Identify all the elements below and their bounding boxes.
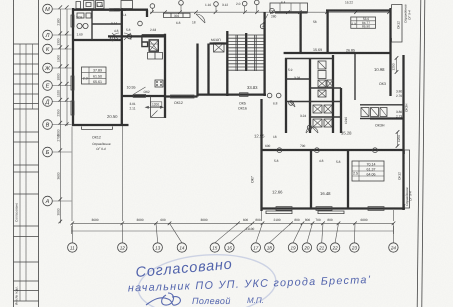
kitchen bottom wall xyxy=(122,95,166,97)
axis circle 14 xyxy=(170,223,187,252)
axis circle К xyxy=(43,44,72,54)
room2 bottom wall xyxy=(165,44,198,97)
node circles bath xyxy=(267,93,312,130)
dim 1250 top right xyxy=(396,58,398,72)
top right outer walls xyxy=(275,8,391,96)
dim 1200 box xyxy=(151,102,162,107)
entrance porch pocket xyxy=(151,97,165,118)
toilet fixture xyxy=(77,13,91,29)
corridor south wall xyxy=(108,35,166,37)
axis circle 19 xyxy=(288,223,302,252)
axis circle 12 xyxy=(118,223,127,252)
stair wall vertical xyxy=(164,34,166,118)
window on top wall xyxy=(110,9,120,11)
top protrusion boxes xyxy=(76,1,104,9)
bathroom partition xyxy=(92,10,122,40)
apartment info box 2.3 right xyxy=(351,17,376,29)
axis circle 21 xyxy=(317,223,326,252)
kitchen door leaf xyxy=(133,87,145,95)
stair rails xyxy=(236,35,256,71)
door arcs center xyxy=(290,102,318,133)
stair block bottom wall xyxy=(197,93,267,95)
frame table cells xyxy=(14,44,39,301)
vertical dimension chain xyxy=(60,9,62,223)
axis circle М xyxy=(43,4,72,14)
paper grain xyxy=(0,0,1,1)
sheet frame left border xyxy=(14,0,39,307)
balcony top right xyxy=(392,5,403,43)
axis circle Б xyxy=(43,147,72,157)
staircase steps flight1 xyxy=(229,35,246,70)
inner dimension chain xyxy=(66,9,68,126)
bath fixtures xyxy=(318,80,326,87)
bottom right block walls xyxy=(262,99,406,211)
axis circle Ж xyxy=(43,63,72,73)
elevator small left of stairs xyxy=(214,43,225,52)
apartment info box 2.5 xyxy=(352,161,384,181)
node circles on wall xyxy=(277,148,377,153)
top dimension line xyxy=(150,11,390,13)
axis circle 18 xyxy=(265,223,291,252)
bottom second dimension line xyxy=(72,226,394,234)
staircase steps flight2 xyxy=(248,35,264,70)
staircase walls xyxy=(227,12,264,96)
right rooms walls xyxy=(355,54,404,119)
wire building corner drop lines xyxy=(72,126,394,221)
corridor top wall xyxy=(114,10,148,17)
stove symbol xyxy=(155,80,163,87)
balcony bottom right xyxy=(405,150,410,208)
axis circle В xyxy=(43,120,72,130)
axis circle Е xyxy=(43,81,72,91)
elevator shaft hatched xyxy=(149,40,158,51)
axis node circle 4 xyxy=(260,14,268,29)
axis circle 13 xyxy=(153,223,162,252)
small node circles top xyxy=(150,4,155,9)
room wall left of stairs xyxy=(209,44,228,95)
axis circle 11 xyxy=(68,223,77,252)
bath cluster walls xyxy=(286,55,341,133)
axis circle 16 xyxy=(225,223,253,252)
left block outer walls xyxy=(72,8,129,126)
signature xyxy=(146,293,180,305)
window boxes bottom xyxy=(266,207,384,214)
left wall windows xyxy=(71,15,74,115)
axis circle 22 xyxy=(330,223,339,252)
bottom main dimension line xyxy=(72,222,394,224)
axis circle Д xyxy=(43,97,72,107)
duct shaft box corridor xyxy=(164,13,191,17)
axis circle 20 xyxy=(302,223,312,252)
door arcs left hall xyxy=(112,33,131,40)
balcony left bottom xyxy=(82,127,113,130)
axis circle 17 xyxy=(251,223,262,252)
node circles hall xyxy=(110,21,142,41)
axis circle Л xyxy=(43,30,72,40)
axis circle 15 xyxy=(210,223,238,252)
shaft boxes below elevator xyxy=(148,52,163,59)
hall south wall right xyxy=(284,52,391,54)
stamp ellipse xyxy=(136,250,278,307)
sheet frame right border xyxy=(417,0,425,307)
bathroom wall xyxy=(72,39,122,41)
dim 1250 bottom right line xyxy=(397,132,399,146)
axis circle 23 xyxy=(350,223,359,252)
entrance vestibule walls xyxy=(142,35,166,47)
axis circle 24 xyxy=(389,223,398,252)
axis circle А xyxy=(43,196,72,206)
corridor door arc xyxy=(196,14,205,23)
apartment info box 2.3 xyxy=(82,67,107,84)
axis node circle 5 xyxy=(270,8,275,13)
